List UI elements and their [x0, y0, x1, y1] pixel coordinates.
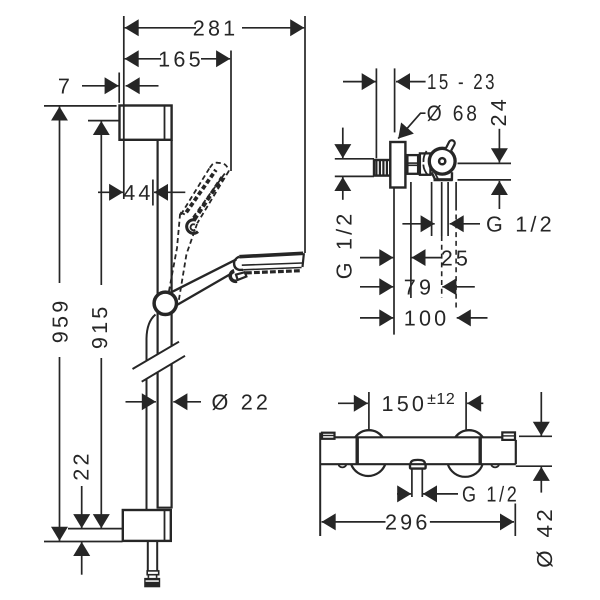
solid head bottom line — [243, 268, 301, 270]
extension line head front (x=305) — [304, 16, 306, 253]
dashed head mid ridge — [190, 174, 225, 222]
svg-text:79: 79 — [404, 275, 434, 300]
outlet tab dome — [411, 460, 425, 464]
solid head nozzle band — [246, 271, 300, 273]
bottom wall bracket — [123, 510, 171, 541]
left screw bump — [339, 464, 347, 467]
extension line top of rail (y=106) — [44, 105, 117, 107]
extension line 25 right (x=410.9) — [410, 182, 412, 298]
svg-text:959: 959 — [47, 298, 72, 344]
dimension 165 — [125, 58, 231, 60]
left union top arc — [355, 430, 382, 437]
dimension 15-23 — [343, 81, 426, 83]
extension line 165 (x=231) — [230, 51, 232, 172]
dashed head right edge — [197, 171, 229, 223]
solid head right edge — [303, 253, 304, 267]
solid head mid line — [242, 263, 302, 265]
top bracket inner right line — [164, 106, 166, 140]
left G 1/2 arrows — [342, 128, 344, 200]
dashed hand shower handle line 2 — [179, 224, 197, 300]
right union top arc — [455, 430, 482, 437]
mixer body left edge + 296 extension — [319, 433, 321, 536]
rail break line 1 — [133, 342, 180, 369]
left top cap — [322, 433, 335, 439]
extension line valve center (x=441.7) — [441, 182, 443, 236]
valve center hole — [439, 158, 445, 164]
extension line 15-23 left — [375, 68, 377, 158]
rail break line 2 — [142, 356, 185, 382]
rail end cap — [157, 507, 172, 509]
svg-text:44: 44 — [123, 180, 153, 205]
handle lower line — [178, 272, 234, 305]
mixer body bottom edge — [320, 463, 516, 465]
svg-text:100: 100 — [404, 306, 450, 331]
mixer body top edge — [335, 436, 516, 438]
valve body circle — [429, 148, 455, 174]
dashed hand shower handle line 1 — [169, 163, 229, 300]
svg-text:150±12: 150±12 — [382, 391, 456, 416]
threaded wall stub — [374, 160, 390, 176]
svg-text:915: 915 — [87, 303, 112, 349]
svg-text:24: 24 — [486, 96, 511, 126]
extension line outlet left (x=431.6) — [431, 182, 433, 236]
left G 1/2 extension top — [335, 158, 374, 160]
dashed head spray texture row 2 — [194, 177, 222, 219]
rail break white gap — [133, 342, 186, 382]
hose below bracket right — [156, 541, 158, 571]
adapter block 1 — [407, 155, 418, 174]
dashed head spray texture row 1 — [186, 170, 216, 212]
extension line 24 top — [458, 162, 512, 164]
solid head left cap — [234, 257, 243, 270]
solid head hose nipple face — [236, 272, 246, 280]
dashed head butt curl — [187, 220, 198, 234]
dimension diameter 22 rail — [126, 401, 202, 403]
bottom bracket inner line — [164, 510, 166, 541]
dimension 24 — [498, 129, 500, 209]
right top cap — [502, 432, 515, 440]
valve outlet — [432, 172, 452, 179]
extension line outlet right (x=448.1) — [447, 182, 449, 236]
extension line 150 right — [465, 392, 467, 431]
dimension 25 — [360, 257, 442, 259]
top bracket inner left line — [123, 106, 125, 140]
dimension diameter 42 — [540, 392, 542, 493]
left union bottom arc — [351, 464, 385, 476]
ball joint crescents — [423, 151, 426, 162]
dimension 959 — [59, 107, 61, 541]
hose below bracket left — [147, 541, 149, 571]
outlet tab block — [410, 464, 426, 468]
right screw bump — [491, 464, 499, 467]
top wall bracket — [120, 106, 172, 140]
hose ferrule — [147, 571, 159, 575]
extension line 24 bottom — [458, 179, 512, 181]
svg-text:165: 165 — [158, 47, 204, 72]
extension line tab left — [411, 469, 413, 497]
dimension 296 — [322, 521, 514, 523]
extension line 296 right — [514, 504, 516, 537]
svg-text:15 - 23: 15 - 23 — [427, 69, 497, 94]
extension line tab right — [421, 469, 423, 497]
handle upper line — [171, 259, 236, 292]
svg-text:Ø 42: Ø 42 — [532, 506, 557, 568]
extension line 44 (x=152.9) — [152, 180, 154, 206]
thick joint line right — [479, 437, 482, 464]
svg-text:Ø 68: Ø 68 — [427, 100, 480, 125]
left G 1/2 extension bottom — [335, 175, 374, 177]
extension line 100 right (x=456.1) — [455, 182, 457, 211]
shower hose upper run — [147, 315, 156, 542]
adapter block 2 — [420, 153, 431, 174]
extension line wall face (x=124) — [123, 16, 125, 199]
shower rail right edge — [171, 140, 173, 509]
shower rail left edge — [157, 140, 159, 509]
extension line 15-23 right — [394, 68, 396, 132]
dashed head left edge — [181, 168, 210, 215]
dashed head butt curl inner — [191, 224, 196, 230]
hose nut — [144, 578, 160, 587]
extension line 915 top (y=120.6) — [88, 120, 119, 122]
leader diameter 68 — [398, 113, 425, 138]
solid head hose crescent — [230, 271, 237, 281]
dimension 7 — [82, 85, 159, 87]
svg-text:G 1/2: G 1/2 — [486, 211, 555, 236]
svg-text:296: 296 — [385, 510, 431, 535]
diameter 42 extension top — [519, 435, 552, 437]
hose neck — [147, 575, 149, 578]
extension line bracket left (7 dim) — [118, 73, 120, 103]
slider pivot circle — [154, 292, 176, 314]
dashed head left kink — [180, 213, 185, 215]
thick joint line left — [356, 437, 359, 464]
dimension 915 — [100, 121, 102, 528]
extension line plate (x=394) lower — [393, 189, 395, 335]
solid head top edge — [239, 253, 303, 256]
right union bottom arc — [448, 464, 483, 477]
dimension 281 — [125, 27, 305, 29]
extension line 22 top (y=528.6) — [68, 528, 122, 530]
svg-text:22: 22 — [69, 450, 94, 480]
svg-text:25: 25 — [441, 245, 471, 270]
extension line 150 left — [368, 392, 370, 430]
dimension 100 — [360, 317, 488, 319]
dashed head top cap — [210, 163, 229, 171]
dimension 79 — [360, 286, 475, 288]
diameter 42 extension bottom — [516, 465, 552, 467]
svg-text:7: 7 — [58, 73, 73, 98]
dimension bottom G 1/2 — [397, 493, 458, 495]
extension line bottom (y=541.5) — [44, 541, 123, 543]
svg-text:G 1/2: G 1/2 — [332, 210, 357, 279]
svg-text:G 1/2: G 1/2 — [462, 482, 520, 507]
wall plate — [390, 142, 405, 188]
svg-text:Ø 22: Ø 22 — [212, 390, 272, 415]
dimension 150 — [338, 402, 483, 404]
mixer body right edge — [515, 440, 517, 464]
dimension 44 — [98, 191, 185, 193]
dimension right G 1/2 — [402, 223, 480, 225]
svg-text:281: 281 — [193, 16, 239, 41]
dimension 22 lower — [81, 486, 83, 575]
valve knob — [446, 140, 455, 151]
